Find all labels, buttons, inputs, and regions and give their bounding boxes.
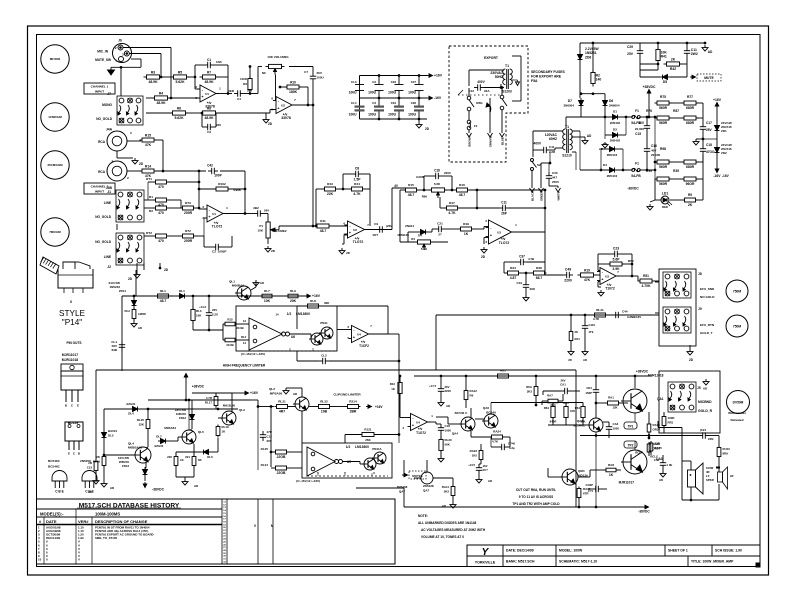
svg-text:5A-FB: 5A-FB (631, 174, 641, 178)
svg-text:50HZ: 50HZ (495, 75, 503, 79)
svg-text:R12: R12 (390, 382, 396, 386)
svg-text:200R: 200R (184, 239, 193, 243)
svg-text:RL22: RL22 (320, 400, 328, 404)
svg-text:100U: 100U (368, 90, 377, 94)
svg-text:560R: 560R (659, 165, 668, 169)
svg-text:C47: C47 (411, 80, 417, 84)
svg-text:ZD13: ZD13 (122, 464, 129, 468)
svg-text:BROWN: BROWN (468, 136, 472, 147)
svg-text:NO GOLD: NO GOLD (700, 295, 715, 299)
svg-text:26V: 26V (317, 71, 322, 75)
svg-text:2D: 2D (481, 255, 486, 259)
svg-text:26V: 26V (561, 379, 566, 383)
svg-text:(26V: (26V (386, 224, 392, 228)
svg-text:2K: 2K (671, 58, 676, 62)
svg-text:RL25: RL25 (137, 418, 144, 422)
svg-text:9 TO 11 AV IS ACROSS: 9 TO 11 AV IS ACROSS (519, 495, 554, 499)
svg-text:EXPORT: EXPORT (484, 56, 499, 60)
svg-text:10K VOLUME1: 10K VOLUME1 (267, 55, 289, 59)
svg-text:BAV21: BAV21 (126, 402, 135, 406)
svg-text:47U: 47U (267, 430, 272, 434)
svg-text:MJR11018: MJR11018 (648, 374, 664, 378)
svg-text:MPSA56: MPSA56 (270, 391, 283, 395)
svg-text:68.7: 68.7 (536, 276, 543, 280)
svg-text:2B2: 2B2 (253, 206, 259, 210)
svg-text:1K: 1K (464, 232, 469, 236)
svg-text:R2: R2 (149, 209, 153, 213)
svg-text:P1: P1 (259, 224, 263, 228)
svg-text:J4A: J4A (106, 128, 113, 132)
svg-text:1N5231: 1N5231 (585, 51, 597, 55)
svg-text:680R: 680R (686, 106, 695, 110)
svg-text:SCH ISSUE: 1.90: SCH ISSUE: 1.90 (715, 549, 742, 553)
svg-text:S1203: S1203 (502, 90, 512, 94)
svg-text:R47: R47 (449, 201, 455, 205)
svg-text:C30: C30 (552, 171, 558, 175)
svg-text:U1: U1 (212, 212, 216, 216)
svg-text:12K: 12K (612, 406, 618, 410)
svg-text:DL7: DL7 (156, 435, 162, 439)
svg-text:BLUE: BLUE (501, 137, 505, 145)
svg-text:C3: C3 (372, 101, 376, 105)
svg-text:R64: R64 (575, 406, 581, 410)
svg-text:U4: U4 (416, 420, 420, 424)
svg-text:+CL2: +CL2 (199, 305, 206, 309)
svg-text:10K: 10K (196, 314, 202, 318)
svg-text:47OO: 47OO (706, 150, 715, 154)
svg-text:U3: U3 (605, 274, 609, 278)
svg-text:MIC_IN: MIC_IN (97, 50, 109, 54)
svg-text:NO_GOLD: NO_GOLD (95, 240, 111, 244)
svg-text:20K: 20K (290, 299, 297, 303)
svg-text:100U: 100U (408, 112, 417, 116)
svg-text:4.7K: 4.7K (353, 192, 361, 196)
svg-text:AD: AD (88, 490, 92, 494)
svg-text:+16V: +16V (713, 98, 722, 102)
svg-text:221: 221 (185, 455, 190, 459)
svg-text:8R9: 8R9 (723, 452, 729, 456)
svg-text:C11: C11 (501, 201, 507, 205)
svg-text:+38VDC: +38VDC (192, 385, 205, 389)
svg-text:SMB_TO_ST100: SMB_TO_ST100 (95, 536, 118, 540)
svg-text:60HZ: 60HZ (549, 137, 557, 141)
svg-text:M517.SCH DATABASE HISTORY: M517.SCH DATABASE HISTORY (79, 503, 180, 510)
svg-text:400V: 400V (534, 142, 542, 146)
svg-text:C49: C49 (565, 268, 571, 272)
svg-text:2N5912E: 2N5912E (397, 233, 409, 237)
svg-text:R87: R87 (673, 109, 679, 113)
svg-text:-38VDC: -38VDC (638, 510, 650, 514)
svg-text:CA3: CA3 (613, 422, 619, 426)
svg-text:RA8: RA8 (608, 463, 614, 467)
svg-text:2.2U: 2.2U (212, 313, 218, 317)
svg-text:25V: 25V (706, 128, 713, 132)
svg-text:SCHEMATIC: M517-1.10: SCHEMATIC: M517-1.10 (559, 560, 597, 564)
svg-text:22OB: 22OB (277, 455, 286, 459)
svg-text:220U: 220U (445, 389, 452, 393)
svg-text:DEC/14/99: DEC/14/99 (46, 536, 61, 540)
svg-text:5.62K: 5.62K (174, 116, 184, 120)
svg-text:R4: R4 (159, 91, 163, 95)
svg-text:R9: R9 (688, 193, 692, 197)
svg-text:1000: 1000 (613, 427, 620, 431)
svg-text:DL5: DL5 (108, 434, 114, 438)
svg-text:U2: U2 (353, 228, 357, 232)
svg-text:560R: 560R (659, 182, 668, 186)
svg-text:CUT OUT R6A, RUN UNTIL: CUT OUT R6A, RUN UNTIL (516, 488, 556, 492)
svg-text:M0BBA13: M0BBA13 (128, 446, 142, 450)
svg-text:NO_GOLD: NO_GOLD (96, 117, 112, 121)
svg-text:110K: 110K (240, 77, 248, 81)
svg-text:2D: 2D (425, 127, 430, 131)
svg-text:QL2: QL2 (269, 387, 275, 391)
svg-text:C?40: C?40 (508, 442, 515, 446)
svg-text:M9SA64: M9SA64 (164, 426, 176, 430)
svg-text:(4=-16V,11=+16V): (4=-16V,11=+16V) (241, 352, 265, 356)
svg-text:QA7: QA7 (399, 490, 406, 494)
svg-text:-38VDC: -38VDC (627, 187, 639, 191)
svg-text:C B E: C B E (55, 490, 64, 494)
svg-text:BC546C: BC546C (573, 424, 585, 428)
svg-text:40V: 40V (638, 121, 645, 125)
svg-text:DV50M: DV50M (733, 401, 744, 405)
svg-text:J7: J7 (107, 92, 111, 96)
svg-text:560R: 560R (659, 121, 668, 125)
svg-text:GOLD_T: GOLD_T (700, 331, 713, 335)
svg-text:100M-100MS: 100M-100MS (95, 512, 120, 517)
svg-text:21OB: 21OB (236, 326, 243, 330)
svg-text:C13: C13 (87, 466, 93, 470)
svg-text:22,000: 22,000 (635, 127, 645, 131)
svg-text:E: E (68, 452, 70, 456)
svg-text:RL7: RL7 (264, 289, 270, 293)
svg-text:2D: 2D (139, 162, 144, 166)
svg-text:U6: U6 (291, 335, 295, 339)
svg-text:F1: F1 (474, 124, 478, 128)
svg-text:U1: U1 (205, 92, 209, 96)
svg-text:2D: 2D (268, 122, 273, 126)
svg-text:TITLE: 100W_MIXER_AMP: TITLE: 100W_MIXER_AMP (691, 560, 734, 564)
svg-text:CHANNEL 1: CHANNEL 1 (91, 85, 109, 89)
svg-text:ZD11: ZD11 (119, 289, 127, 293)
svg-text:TLO72: TLO72 (212, 225, 223, 229)
svg-text:22A: 22A (484, 89, 490, 93)
svg-text:1000P: 1000P (218, 250, 227, 254)
svg-text:100U: 100U (368, 112, 377, 116)
svg-text:+C?4: +C?4 (429, 384, 436, 388)
svg-text:+38VDC: +38VDC (643, 85, 656, 89)
svg-text:QA6: QA6 (483, 406, 490, 410)
svg-text:680R: 680R (686, 165, 695, 169)
svg-text:26V: 26V (264, 209, 269, 213)
svg-text:VER#: VER# (78, 519, 89, 524)
svg-text:100U: 100U (349, 112, 358, 116)
svg-text:22OB: 22OB (277, 471, 286, 475)
svg-text:J1: J1 (107, 190, 111, 194)
svg-text:21OB: 21OB (226, 343, 233, 347)
svg-text:RL1: RL1 (160, 289, 166, 293)
svg-text:C2: C2 (372, 80, 376, 84)
svg-text:36K: 36K (324, 301, 330, 305)
svg-text:C1: C1 (207, 58, 211, 62)
svg-text:TLO72: TLO72 (499, 241, 510, 245)
svg-text:RCA: RCA (98, 140, 106, 144)
svg-text:2N5438: 2N5438 (423, 484, 434, 488)
svg-text:48.7: 48.7 (320, 229, 327, 233)
svg-text:R7: R7 (207, 70, 211, 74)
svg-text:22K: 22K (139, 423, 145, 427)
svg-text:MODEL(S):-: MODEL(S):- (40, 512, 64, 517)
svg-text:DESCRIPTION OF CHANGE: DESCRIPTION OF CHANGE (95, 519, 148, 524)
svg-text:26P: 26P (501, 212, 508, 216)
svg-text:-16V: -16V (713, 174, 721, 178)
svg-text:RT1: RT1 (146, 177, 152, 181)
svg-text:R11: R11 (320, 219, 326, 223)
svg-text:EFX_SND: EFX_SND (700, 287, 715, 291)
svg-text:LINE: LINE (104, 255, 111, 259)
svg-text:D6: D6 (609, 99, 613, 103)
svg-text:INPUT: INPUT (95, 89, 104, 93)
svg-text:2D: 2D (568, 358, 572, 362)
svg-text:ZD13: ZD13 (179, 416, 186, 420)
svg-text:F1: F1 (635, 162, 639, 166)
svg-text:NO_GOLD: NO_GOLD (95, 215, 111, 219)
svg-text:2?: 2? (438, 233, 442, 237)
svg-text:RL19: RL19 (222, 425, 229, 429)
svg-text:R15: R15 (145, 133, 151, 137)
svg-text:R73: R73 (185, 201, 191, 205)
svg-text:2N5438: 2N5438 (397, 485, 408, 489)
svg-text:C110: C110 (589, 323, 596, 327)
svg-text:2D: 2D (689, 358, 694, 362)
svg-text:R19: R19 (584, 269, 590, 273)
svg-text:R43: R43 (327, 182, 333, 186)
svg-text:MJR11018: MJR11018 (62, 358, 79, 362)
svg-text:40V: 40V (651, 149, 656, 153)
svg-text:C12: C12 (267, 435, 273, 439)
svg-text:STYLE: STYLE (59, 309, 85, 318)
svg-text:GREEN: GREEN (540, 191, 544, 201)
svg-text:48.9K: 48.9K (204, 80, 214, 84)
svg-text:140: 140 (596, 78, 602, 82)
svg-text:M06BA6: M06BA6 (232, 284, 244, 288)
svg-text:-16V: -16V (434, 96, 442, 100)
svg-text:SW1: SW1 (476, 101, 483, 105)
svg-text:T1O72: T1O72 (416, 431, 426, 435)
svg-text:5.62K: 5.62K (175, 80, 185, 84)
svg-text:CA1: CA1 (560, 383, 566, 387)
svg-text:F5A: F5A (531, 79, 538, 83)
svg-text:GRN/YEL: GRN/YEL (489, 134, 493, 147)
svg-text:DATE: DEC/14/99: DATE: DEC/14/99 (506, 549, 534, 553)
svg-text:4N0P: 4N0P (586, 391, 593, 395)
svg-text:100U: 100U (349, 90, 358, 94)
svg-text:C16: C16 (434, 169, 440, 173)
svg-text:R72: R72 (185, 229, 191, 233)
svg-text:470: 470 (158, 211, 164, 215)
svg-text:RCLY: RCLY (635, 451, 643, 455)
svg-text:96OR: 96OR (686, 182, 695, 186)
svg-text:63B: 63B (111, 348, 117, 352)
svg-text:2D: 2D (128, 277, 133, 281)
svg-text:J9: J9 (698, 307, 702, 311)
svg-text:MONO: MONO (102, 103, 112, 107)
svg-text:33078: 33078 (281, 116, 291, 120)
svg-text:4.70K: 4.70K (641, 284, 651, 288)
svg-text:(4=-16V,11=+16V): (4=-16V,11=+16V) (296, 479, 320, 483)
svg-text:R102: R102 (218, 182, 226, 186)
svg-text:26K: 26K (365, 438, 371, 442)
svg-text:With Limiter: With Limiter (728, 411, 747, 415)
svg-text:AD: AD (659, 478, 663, 482)
svg-text:AD: AD (260, 281, 264, 285)
svg-text:RL24: RL24 (261, 463, 269, 467)
svg-text:AD: AD (708, 50, 713, 54)
svg-text:39O: 39O (530, 287, 536, 291)
svg-text:2W2: 2W2 (691, 52, 698, 56)
svg-text:LD1: LD1 (662, 191, 669, 195)
svg-text:C34: C34 (391, 101, 397, 105)
svg-text:RL30: RL30 (445, 438, 452, 442)
svg-text:CL2: CL2 (321, 354, 327, 358)
svg-text:BC546C: BC546C (48, 459, 61, 463)
svg-text:WHITE: WHITE (557, 191, 561, 200)
svg-text:C21: C21 (437, 222, 443, 226)
svg-text:47K: 47K (584, 278, 591, 282)
svg-text:26V: 26V (212, 308, 217, 312)
svg-text:R39: R39 (673, 169, 679, 173)
svg-text:DL4: DL4 (128, 412, 134, 416)
svg-text:QA1: QA1 (657, 397, 664, 401)
svg-text:RA1: RA1 (608, 396, 614, 400)
svg-text:+16V: +16V (250, 391, 259, 395)
svg-text:U4: U4 (357, 332, 361, 336)
svg-text:ALL UNMARKED DIODES ARE 1N4148: ALL UNMARKED DIODES ARE 1N4148 (418, 521, 476, 525)
svg-text:AD: AD (488, 479, 492, 483)
svg-text:4.7K: 4.7K (593, 317, 600, 321)
svg-text:R121: R121 (364, 428, 372, 432)
svg-text:BC546 C: BC546 C (455, 411, 468, 415)
svg-text:2BR: 2BR (350, 410, 357, 414)
svg-text:MJR11017: MJR11017 (62, 353, 79, 357)
svg-text:R98: R98 (660, 147, 666, 151)
svg-text:HIGH FREQUENCY LIMITER: HIGH FREQUENCY LIMITER (223, 364, 266, 368)
svg-text:Defeated: Defeated (730, 418, 743, 422)
svg-text:R66: R66 (422, 195, 428, 199)
svg-text:1.5P: 1.5P (354, 178, 362, 182)
svg-text:447: 447 (552, 176, 557, 180)
svg-text:C2: C2 (212, 250, 216, 254)
svg-text:HF: HF (730, 474, 734, 478)
svg-text:2K: 2K (575, 330, 579, 334)
svg-text:RL9: RL9 (290, 289, 296, 293)
svg-text:ZD6: ZD6 (585, 56, 591, 60)
svg-text:750M: 750M (733, 290, 742, 294)
svg-text:R9: R9 (470, 394, 474, 398)
svg-text:BLACK: BLACK (531, 191, 535, 201)
svg-text:C?4: C?4 (654, 458, 660, 462)
svg-text:3K3: 3K3 (550, 403, 556, 407)
svg-text:RL3: RL3 (196, 309, 202, 313)
svg-text:CHANNEL 2: CHANNEL 2 (91, 185, 109, 189)
svg-text:R6: R6 (177, 106, 181, 110)
svg-text:100U: 100U (317, 76, 324, 80)
svg-text:QM4: QM4 (578, 469, 585, 473)
svg-text:4.7K: 4.7K (492, 440, 499, 444)
svg-text:2N54C2: 2N54C2 (607, 174, 618, 178)
svg-text:CL4: CL4 (351, 101, 357, 105)
svg-text:C29: C29 (627, 45, 633, 49)
svg-text:M91B.56: M91B.56 (223, 404, 236, 408)
svg-text:22R: 22R (655, 442, 661, 446)
svg-text:R10: R10 (290, 80, 296, 84)
svg-text:SPKR: SPKR (706, 478, 714, 482)
svg-text:BAV21: BAV21 (154, 444, 163, 448)
svg-text:RA23: RA23 (470, 449, 478, 453)
svg-text:CL3: CL3 (351, 80, 357, 84)
svg-text:T1072: T1072 (605, 287, 615, 291)
svg-text:S2: S2 (537, 163, 541, 167)
svg-text:T1CF2: T1CF2 (359, 344, 369, 348)
svg-text:J6: J6 (118, 39, 122, 43)
svg-text:2N914: 2N914 (405, 224, 414, 228)
svg-text:+16V: +16V (434, 74, 443, 78)
svg-text:DATE: DATE (46, 519, 57, 524)
svg-text:RR1: RR1 (668, 421, 674, 425)
svg-text:TP2: TP2 (628, 443, 634, 447)
svg-text:LM13600: LM13600 (355, 445, 369, 449)
svg-text:QA7: QA7 (423, 489, 430, 493)
svg-text:3.3NB/16V: 3.3NB/16V (627, 315, 641, 319)
svg-text:RL21: RL21 (278, 400, 286, 404)
svg-text:5.6K: 5.6K (434, 182, 441, 186)
svg-text:100P: 100P (214, 174, 222, 178)
svg-text:R15: R15 (227, 318, 233, 322)
svg-text:2200: 2200 (444, 171, 451, 175)
svg-text:SHEET OF 1: SHEET OF 1 (668, 549, 688, 553)
svg-text:48.9K: 48.9K (156, 101, 166, 105)
svg-text:25V: 25V (627, 52, 634, 56)
svg-text:D7: D7 (568, 99, 572, 103)
svg-text:3K3: 3K3 (527, 390, 533, 394)
svg-text:D5: D5 (663, 80, 667, 84)
svg-text:C41: C41 (549, 145, 555, 149)
svg-text:EFX_RTN: EFX_RTN (700, 323, 715, 327)
svg-text:5.6K: 5.6K (421, 247, 428, 251)
svg-text:R6A: R6A (526, 385, 533, 389)
svg-text:4 N0P: 4 N0P (585, 483, 593, 487)
svg-text:D2: D2 (613, 128, 617, 132)
svg-text:RU10: RU10 (723, 447, 731, 451)
svg-text:2200: 2200 (564, 279, 572, 283)
svg-text:RL21: RL21 (596, 308, 604, 312)
svg-text:2K2: 2K2 (444, 490, 450, 494)
svg-text:AD: AD (138, 326, 142, 330)
svg-text:RL2: RL2 (125, 309, 131, 313)
svg-text:1 0E: 1 0E (667, 463, 673, 467)
svg-text:CR1: CR1 (586, 386, 592, 390)
svg-text:470: 470 (158, 203, 164, 207)
svg-text:180K: 180K (289, 90, 298, 94)
svg-text:2U?: 2U? (483, 468, 489, 472)
svg-text:F1: F1 (635, 109, 639, 113)
svg-text:1M0R: 1M0R (138, 312, 147, 316)
svg-text:10B: 10B (321, 410, 328, 414)
svg-text:D4: D4 (418, 234, 422, 238)
svg-text:2N54C2: 2N54C2 (607, 153, 618, 157)
svg-text:56K: 56K (445, 443, 451, 447)
svg-text:10K: 10K (257, 229, 263, 233)
